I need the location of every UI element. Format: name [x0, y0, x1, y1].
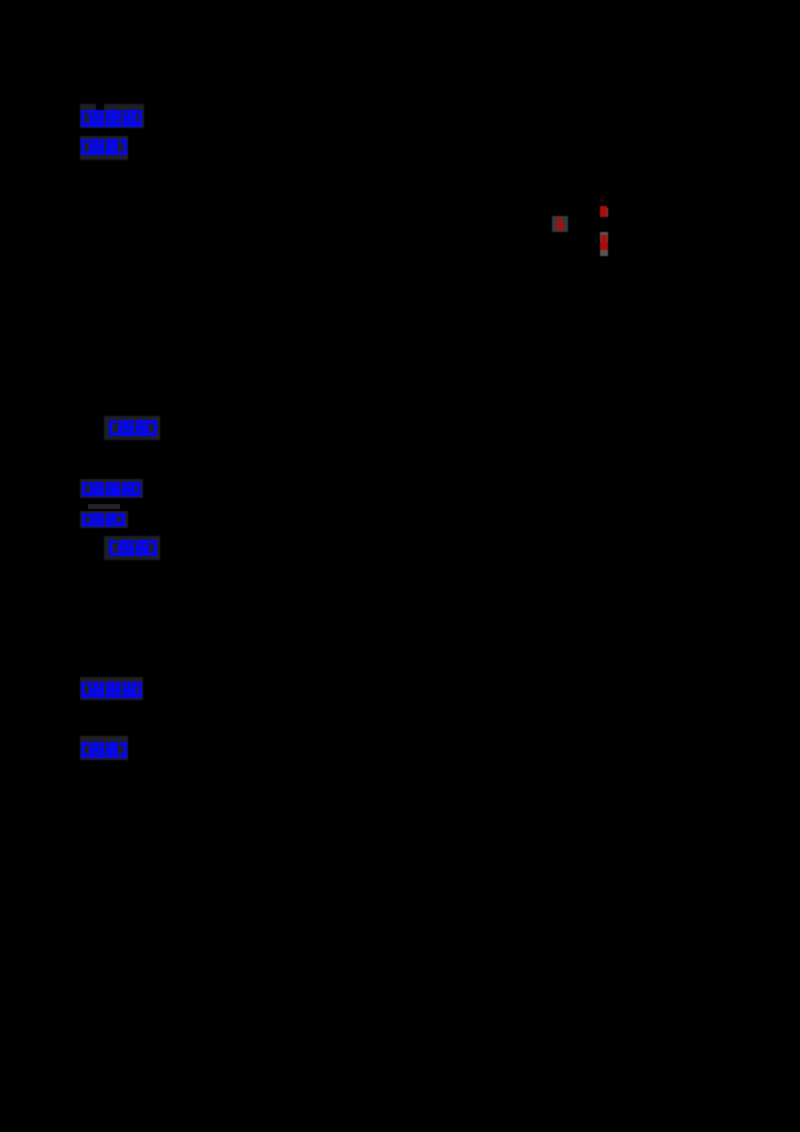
- link E: [80, 511, 128, 528]
- link G: [80, 677, 143, 700]
- link H: [80, 736, 128, 760]
- link D: [80, 479, 143, 498]
- link F: [104, 536, 160, 560]
- red strip top: [599, 198, 609, 217]
- red stamp left: [552, 216, 568, 232]
- link A: [80, 104, 144, 128]
- link B: [80, 136, 128, 160]
- link C: [104, 416, 160, 440]
- fragment above link E: [88, 504, 120, 509]
- red strip bottom: [599, 232, 609, 256]
